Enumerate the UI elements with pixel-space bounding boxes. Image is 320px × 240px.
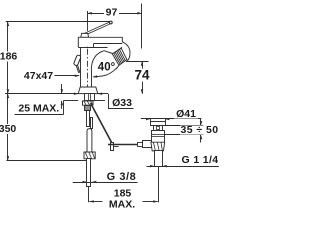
svg-text:35 ÷ 50: 35 ÷ 50 — [180, 124, 218, 136]
svg-text:40°: 40° — [98, 61, 116, 73]
svg-text:186: 186 — [0, 51, 17, 63]
svg-text:74: 74 — [134, 68, 150, 83]
svg-text:MAX.: MAX. — [109, 199, 135, 211]
svg-text:25 MAX.: 25 MAX. — [18, 102, 59, 114]
svg-text:Ø33: Ø33 — [112, 97, 132, 109]
svg-text:Ø41: Ø41 — [176, 108, 196, 120]
svg-text:350: 350 — [0, 123, 16, 135]
svg-text:G 1 1/4: G 1 1/4 — [182, 154, 219, 166]
svg-text:G 3/8: G 3/8 — [107, 171, 137, 183]
svg-text:97: 97 — [106, 6, 118, 18]
svg-text:47x47: 47x47 — [24, 70, 53, 82]
svg-text:185: 185 — [114, 187, 132, 199]
